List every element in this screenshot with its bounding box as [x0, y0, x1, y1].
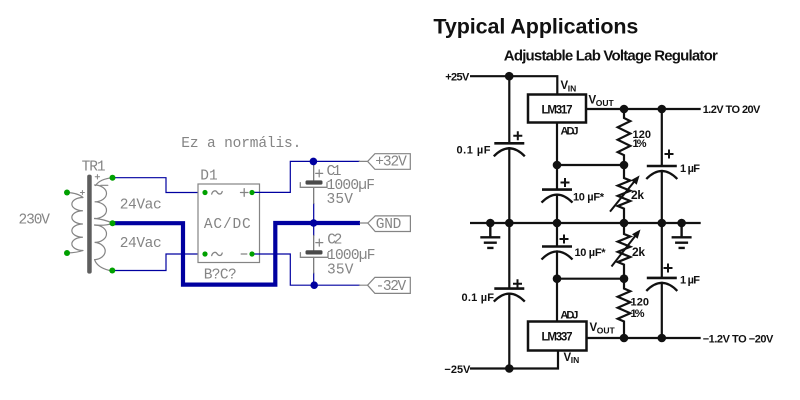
wire secondary top to bridge ~ — [113, 178, 206, 193]
secondary pin dot centre tap — [110, 220, 116, 226]
capacitor C2 wires — [313, 223, 315, 285]
flag +32V pin stub — [359, 160, 367, 162]
bridge + symbol — [241, 189, 249, 197]
junction dot ADJ rail left — [553, 161, 562, 170]
svg-text:OUT: OUT — [596, 98, 615, 108]
capacitor 10uF bottom plus — [560, 235, 569, 244]
svg-text:Typical Applications: Typical Applications — [433, 15, 638, 39]
wire secondary bottom to bridge ~ — [112, 254, 205, 271]
svg-text:+32V: +32V — [375, 155, 407, 171]
wire ADJ rail top — [557, 164, 624, 166]
junction dot VOUT top 2 — [658, 105, 667, 114]
svg-text:1 µF: 1 µF — [680, 275, 700, 287]
junction node +32V — [310, 158, 318, 166]
svg-text:10 µF*: 10 µF* — [575, 247, 607, 259]
capacitor 0.1uF bottom arc — [494, 294, 525, 302]
regulator U2 LM337 box — [528, 322, 587, 351]
wire bridge - to -32V node — [252, 254, 360, 285]
svg-text:C2: C2 — [327, 233, 342, 249]
capacitor C2 gray pins — [313, 236, 315, 274]
svg-text:+25V: +25V — [445, 71, 470, 83]
svg-text:1%: 1% — [631, 308, 645, 320]
svg-text:Ez a normális.: Ez a normális. — [181, 136, 301, 152]
junction dot ground rail at 2k column — [620, 219, 629, 228]
capacitor 10uF top: wires — [556, 165, 558, 223]
capacitor 10uF top arc — [542, 195, 573, 203]
capacitor 1uF bottom plus — [664, 264, 673, 273]
wire VOUT rail top — [586, 108, 701, 110]
svg-text:IN: IN — [571, 355, 580, 365]
thick GND wire from centre tap — [113, 223, 361, 285]
flag GND — [368, 216, 411, 232]
svg-text:ADJ: ADJ — [561, 126, 579, 138]
svg-text:10 µF*: 10 µF* — [573, 191, 605, 203]
junction dot lower ADJ right — [620, 274, 629, 283]
svg-text:−1.2V TO −20V: −1.2V TO −20V — [703, 333, 774, 345]
capacitor C2 top plate — [306, 250, 323, 254]
capacitor 10uF top plate — [542, 188, 572, 191]
capacitor 1uF top plate — [647, 165, 677, 168]
svg-text:Adjustable Lab Voltage Regulat: Adjustable Lab Voltage Regulator — [504, 47, 718, 64]
secondary pin dot bottom — [109, 268, 115, 274]
wire top rail — [470, 76, 557, 94]
capacitor 0.1uF bottom plus — [513, 279, 522, 288]
capacitor C1 gray pins — [313, 165, 315, 204]
svg-text:1.2V TO 20V: 1.2V TO 20V — [703, 104, 761, 116]
capacitor 1uF bottom: wires — [661, 223, 663, 338]
flag +32V — [368, 154, 411, 170]
svg-text:B?C?: B?C? — [204, 268, 237, 284]
svg-text:TR1: TR1 — [82, 160, 106, 176]
capacitor 1uF bottom arc — [646, 283, 677, 291]
bridge - symbol — [241, 253, 247, 255]
primary top lead — [67, 193, 83, 198]
junction dot VOUT bottom 1 — [620, 334, 629, 343]
secondary polarity + — [95, 175, 99, 179]
capacitor 1uF top arc — [646, 171, 677, 179]
junction dot ground rail at right ground — [677, 219, 686, 228]
junction node -32V — [310, 281, 318, 289]
flag -32V pin stub — [360, 284, 368, 286]
svg-text:OUT: OUT — [597, 326, 616, 336]
svg-text:GND: GND — [376, 217, 402, 233]
wire lower ADJ rail — [557, 278, 624, 280]
svg-text:0.1 µF: 0.1 µF — [462, 292, 495, 304]
svg-text:230V: 230V — [19, 213, 51, 229]
junction dot ground rail at 0.1uF column — [505, 219, 514, 228]
bridge ~ symbol top — [212, 191, 223, 194]
secondary bottom lead — [95, 260, 110, 271]
junction dot ground rail at 1uF column — [658, 219, 667, 228]
bridge pin dot ~ bottom — [202, 251, 207, 256]
rheostat 2k bottom arrow — [612, 235, 637, 267]
capacitor 10uF bottom arc — [542, 252, 573, 260]
rheostat 2k top — [618, 165, 631, 223]
capacitor 0.1uF top: column — [508, 76, 510, 223]
svg-text:2k: 2k — [631, 188, 644, 202]
primary pin dot bottom — [64, 250, 70, 256]
resistor 120 bottom — [618, 279, 631, 338]
bridge rectifier D1 box — [198, 184, 260, 263]
capacitor 10uF top plus — [561, 178, 570, 187]
junction dot top rail — [505, 72, 514, 81]
svg-text:LM317: LM317 — [542, 105, 573, 117]
junction node GND — [310, 219, 318, 227]
junction dot bottom rail — [505, 364, 514, 373]
wire VOUT rail bottom — [587, 337, 701, 339]
bridge pin dot + — [249, 190, 254, 195]
primary pin dot top — [64, 190, 70, 196]
capacitor 1uF bottom plate — [647, 277, 677, 280]
capacitor 1uF top: wires — [661, 109, 663, 223]
capacitor 0.1uF bottom: column — [508, 223, 510, 369]
capacitor C1 bottom bracket — [300, 183, 327, 188]
svg-text:120: 120 — [631, 297, 650, 309]
junction dot ground rail at 10uF column — [553, 219, 562, 228]
regulator U1 LM317 box — [528, 95, 586, 123]
capacitor 0.1uF top plate — [494, 142, 524, 145]
transformer TR1 core — [87, 175, 92, 274]
junction dot ADJ rail right — [620, 161, 629, 170]
capacitor C1 top plate — [306, 180, 323, 184]
capacitor C2 bottom bracket — [300, 253, 328, 258]
transformer TR1 primary winding — [72, 198, 83, 251]
capacitor 10uF bottom plate — [542, 245, 572, 248]
flag GND pin stub — [360, 222, 368, 224]
wire bottom rail — [470, 351, 558, 369]
primary polarity + — [80, 191, 84, 195]
svg-text:2k: 2k — [632, 245, 645, 259]
junction dot ground rail at left ground — [486, 219, 495, 228]
transformer TR1 secondary winding 2 — [95, 225, 107, 260]
wire bridge + to +32V node — [252, 161, 360, 192]
wire ADJ pin bottom — [556, 279, 558, 322]
wire ADJ pin top — [556, 123, 558, 166]
capacitor 1uF top plus — [665, 150, 674, 159]
svg-text:AC/DC: AC/DC — [204, 217, 251, 233]
capacitor C2 plus — [316, 239, 323, 246]
svg-text:1%: 1% — [633, 138, 647, 150]
capacitor 0.1uF top plus — [513, 131, 522, 140]
bridge ~ symbol bottom — [212, 252, 223, 255]
ground symbol right — [672, 223, 692, 248]
resistor 120 top — [618, 109, 631, 165]
capacitor C1 plus — [316, 170, 323, 177]
svg-text:−25V: −25V — [444, 364, 471, 376]
capacitor C1 wires — [313, 161, 315, 223]
svg-text:0.1 µF: 0.1 µF — [457, 144, 491, 156]
svg-text:1 µF: 1 µF — [680, 163, 700, 175]
rheostat 2k top arrow — [610, 180, 636, 212]
wire ground rail — [470, 222, 701, 224]
svg-text:IN: IN — [568, 84, 577, 94]
flag -32V — [368, 277, 411, 293]
svg-text:24Vac: 24Vac — [120, 236, 162, 252]
svg-text:24Vac: 24Vac — [120, 198, 162, 214]
svg-text:35V: 35V — [327, 263, 354, 279]
secondary polarity - — [101, 184, 108, 186]
svg-text:D1: D1 — [200, 169, 218, 185]
junction dot VOUT top 1 — [620, 105, 629, 114]
secondary centre-tap leads — [95, 218, 113, 225]
primary bottom lead — [67, 251, 83, 254]
junction dot VOUT bottom 2 — [658, 334, 667, 343]
bridge pin dot ~ top — [202, 190, 207, 195]
capacitor 0.1uF bottom plate — [494, 287, 524, 290]
secondary pin dot top — [110, 175, 116, 181]
capacitor 0.1uF top arc — [494, 148, 525, 156]
junction dot lower ADJ left — [553, 274, 562, 283]
capacitor 10uF bottom: wires — [556, 223, 558, 279]
rheostat 2k top arrowhead — [631, 175, 640, 184]
svg-text:LM337: LM337 — [542, 332, 573, 344]
bridge pin dot - — [249, 251, 254, 256]
transformer TR1 secondary winding 1 — [95, 185, 107, 219]
ground symbol left — [480, 223, 500, 248]
svg-text:ADJ: ADJ — [560, 309, 578, 321]
rheostat 2k bottom — [618, 223, 631, 279]
secondary top lead — [96, 178, 113, 186]
svg-text:35V: 35V — [327, 192, 354, 208]
svg-text:-32V: -32V — [376, 279, 407, 295]
rheostat 2k bottom arrowhead — [632, 230, 641, 239]
